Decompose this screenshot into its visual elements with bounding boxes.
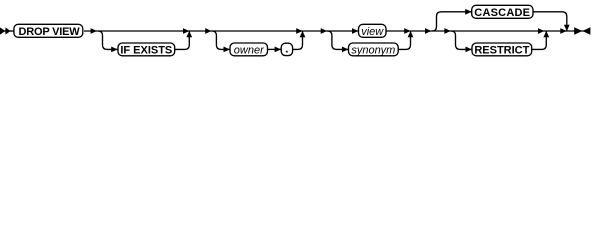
svg-text:IF EXISTS: IF EXISTS	[120, 44, 172, 56]
svg-text:DROP VIEW: DROP VIEW	[19, 26, 81, 38]
svg-text:owner: owner	[234, 44, 265, 56]
svg-text:synonym: synonym	[351, 44, 395, 56]
svg-text:RESTRICT: RESTRICT	[474, 44, 529, 56]
svg-text:CASCADE: CASCADE	[474, 7, 530, 19]
svg-text:view: view	[361, 26, 384, 38]
